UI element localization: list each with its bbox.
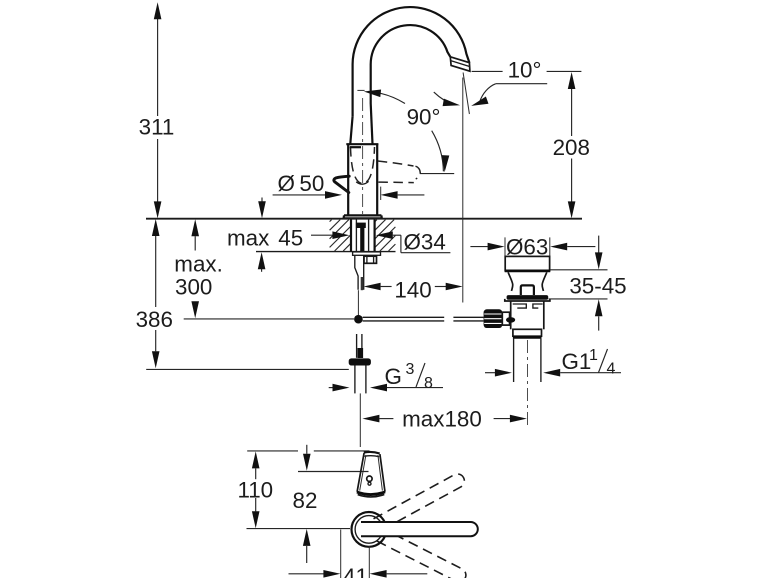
dim 386 lower reference: [146, 368, 349, 370]
top view body circle: [352, 512, 387, 547]
dim 311: [157, 19, 159, 116]
svg-text:Ø34: Ø34: [404, 230, 446, 255]
top view reference line 1: [247, 450, 298, 452]
dim 35-45: [550, 269, 608, 271]
waste seal flange (black): [507, 295, 549, 300]
hose junction node: [354, 315, 363, 324]
waste taper: [508, 272, 513, 291]
dashed lever up: [373, 472, 466, 531]
svg-text:8: 8: [424, 375, 433, 392]
svg-text:3: 3: [406, 361, 415, 378]
waste body: [510, 301, 512, 329]
spout aerator band: [450, 57, 470, 71]
actuator ball: [506, 317, 515, 323]
countertop hatching right: [375, 220, 377, 222]
nozzle joint band: [357, 492, 385, 495]
svg-text:90°: 90°: [407, 105, 441, 130]
svg-text:max.: max.: [174, 252, 223, 277]
waste ext lines: [504, 237, 506, 271]
outlet centerline: [462, 78, 464, 303]
svg-text:10°: 10°: [508, 58, 542, 83]
svg-text:max 45: max 45: [227, 226, 303, 251]
top view reference line 3: [247, 528, 351, 530]
tail pipe above junction: [357, 290, 359, 315]
outlet tilted stream line: [463, 73, 469, 115]
dim G3/8: [329, 387, 333, 389]
svg-text:Ø63: Ø63: [506, 235, 548, 260]
countertop hatching left: [330, 220, 332, 222]
svg-text:386: 386: [136, 307, 173, 332]
svg-text:82: 82: [293, 488, 318, 513]
dim max300: [194, 236, 196, 250]
dim o34: [311, 234, 333, 236]
faucet spout gooseneck: [353, 7, 470, 116]
actuator knurled knob: [484, 309, 503, 328]
waste bayonet slots: [513, 304, 527, 308]
connection pipe to G3/8: [356, 334, 358, 358]
nozzle aerator circles: [367, 476, 372, 481]
swivel reference line: [420, 173, 454, 175]
dim G1 1/4: [485, 372, 495, 374]
dashed lever down: [374, 527, 468, 578]
top view reference line 2: [298, 471, 369, 473]
svg-text:208: 208: [553, 135, 590, 160]
tail tube: [355, 255, 358, 289]
svg-text:110: 110: [237, 478, 273, 503]
svg-text:35-45: 35-45: [569, 274, 626, 299]
svg-text:G1: G1: [562, 349, 592, 374]
dim 41: [340, 530, 342, 578]
waste square stem: [521, 285, 534, 295]
countertop underside line: [256, 251, 396, 253]
dim 208: [571, 89, 573, 136]
actuator stem: [502, 312, 509, 325]
svg-text:Ø 50: Ø 50: [278, 171, 325, 196]
pop-up rod inside shank: [356, 223, 366, 228]
lever handle (closed): [334, 176, 349, 192]
top view lever bar: [361, 522, 478, 536]
waste top flange: [505, 256, 549, 270]
svg-text:1: 1: [589, 347, 598, 364]
dim 110: [255, 468, 257, 479]
svg-text:G: G: [385, 364, 402, 389]
faucet cartridge dome: [350, 116, 352, 144]
faucet body: [346, 143, 378, 145]
svg-text:4: 4: [607, 361, 616, 378]
hose below connector: [354, 366, 356, 394]
svg-text:300: 300: [175, 275, 212, 300]
flexible hose to waste: [363, 316, 445, 318]
G3/8 connector nut: [349, 358, 371, 365]
pull rod lower end: [359, 393, 361, 447]
flexible hose to waste (left reference): [184, 318, 355, 320]
body centerline: [362, 98, 364, 215]
threaded shank through counter: [350, 220, 352, 252]
waste tailpipe: [513, 339, 515, 382]
waste flange lip: [505, 299, 550, 301]
dim o63: [470, 246, 487, 248]
dim max45: [261, 198, 263, 202]
waste centerline: [527, 340, 529, 427]
dim 90deg: [368, 91, 405, 103]
svg-text:311: 311: [139, 115, 175, 140]
svg-text:41: 41: [343, 564, 368, 578]
body internal arc: [356, 181, 368, 184]
top view nozzle: [357, 453, 364, 492]
dim max180: [362, 415, 379, 423]
dashed lever rotated (front view): [378, 161, 414, 166]
dim 140: [364, 283, 381, 291]
horseshoe washer: [353, 252, 381, 255]
dim 82: [306, 445, 308, 454]
countertop surface line: [146, 218, 582, 220]
svg-text:max180: max180: [402, 407, 482, 432]
mounting nut: [364, 256, 377, 263]
base plate: [344, 215, 382, 218]
waste body step: [513, 329, 542, 336]
body internal dashed cartridge: [351, 147, 375, 184]
dim 386: [155, 236, 157, 307]
svg-text:140: 140: [394, 278, 431, 303]
